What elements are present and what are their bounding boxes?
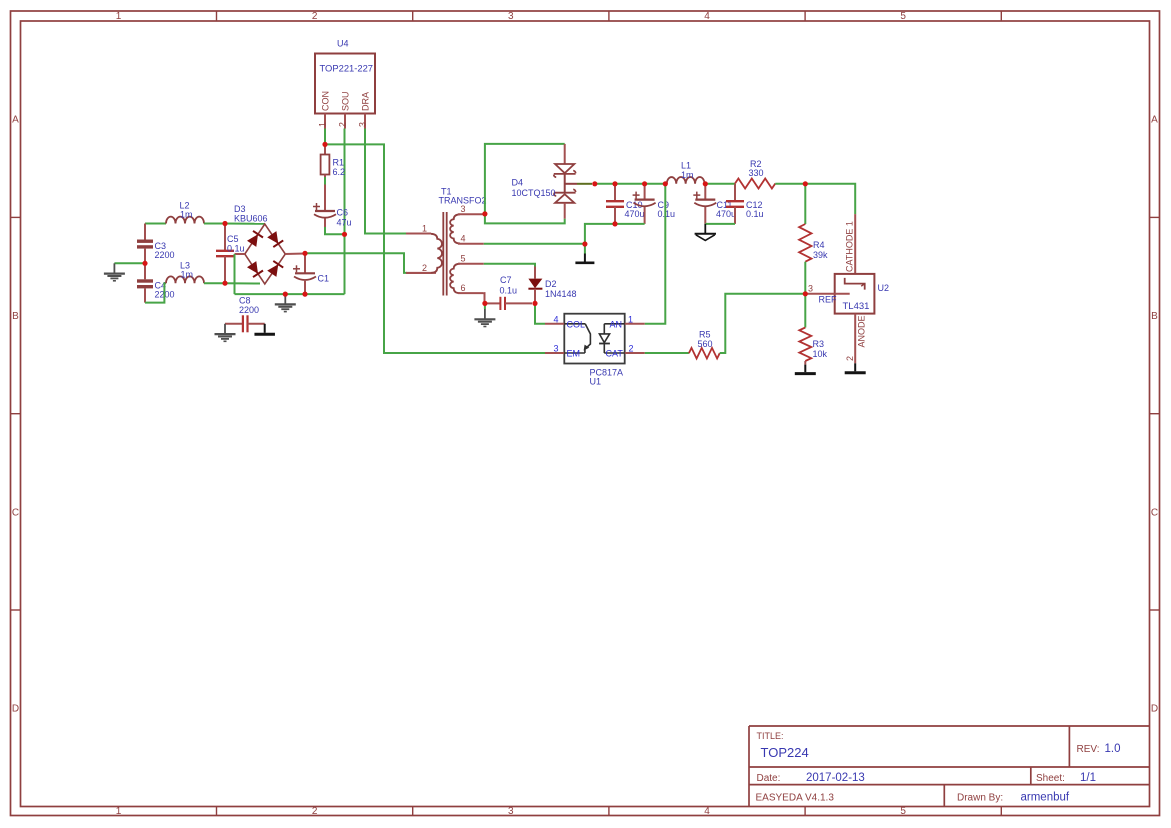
svg-text:3: 3 [808, 284, 813, 294]
svg-text:4: 4 [554, 315, 559, 325]
junction D4 output [592, 181, 597, 186]
wire minus rail [235, 293, 345, 295]
capacitor C12 [734, 184, 736, 200]
diode D4 10CTQ150 [555, 164, 574, 173]
junction REF [803, 291, 808, 296]
svg-text:1: 1 [318, 122, 328, 127]
pin 1 U4 [324, 114, 326, 129]
wire CAT to R5 [645, 352, 689, 354]
capacitor C9 [644, 184, 646, 200]
wire R4 bottom [804, 262, 806, 294]
resistor R2 [735, 179, 775, 189]
ground U2 anode [854, 363, 856, 371]
wire plus rail to T1 pin2 [305, 253, 407, 273]
junction L2/C5/D3 [222, 221, 227, 226]
svg-text:6: 6 [461, 283, 466, 293]
op-amp U2 TL431 body [835, 274, 875, 314]
wire R5 to REF [720, 294, 806, 353]
resistor R1 [324, 146, 326, 155]
svg-text:B: B [12, 311, 19, 322]
svg-text:TOP221-227: TOP221-227 [320, 63, 374, 74]
resistor R5 [689, 348, 720, 359]
svg-text:C5: C5 [227, 234, 239, 244]
pin 1 U1 AN [625, 323, 645, 325]
svg-text:Sheet:: Sheet: [1036, 773, 1065, 784]
junction C10 bottom [612, 221, 617, 226]
svg-text:U1: U1 [590, 377, 602, 387]
svg-text:A: A [1151, 115, 1158, 126]
svg-text:3: 3 [508, 806, 514, 817]
diode D2 1N4148 [534, 267, 536, 279]
junction pin4/gnd [582, 241, 587, 246]
svg-text:D: D [1151, 704, 1158, 715]
svg-text:COL: COL [567, 319, 586, 329]
junction C3/C4/gnd [142, 261, 147, 266]
wire AC top left [145, 223, 166, 225]
svg-text:2: 2 [629, 344, 634, 354]
junction L3/C5 [222, 281, 227, 286]
wire SOU pin2 down [344, 129, 346, 295]
op-amp U4 TOP221-227 body [315, 54, 375, 114]
transformer T1 [442, 212, 444, 296]
junction D3 plus/C1 [302, 251, 307, 256]
svg-text:1: 1 [116, 806, 122, 817]
svg-text:EM: EM [567, 349, 581, 359]
svg-text:1/1: 1/1 [1080, 772, 1096, 784]
svg-text:Date:: Date: [757, 773, 781, 784]
svg-text:D2: D2 [545, 279, 557, 289]
capacitor C6 [324, 185, 326, 211]
svg-text:2: 2 [845, 356, 855, 361]
svg-text:0.1u: 0.1u [227, 244, 245, 254]
wire cathode [854, 214, 856, 274]
ground C7 [484, 303, 486, 309]
svg-text:SOU: SOU [341, 91, 351, 111]
inductor L2 [166, 217, 204, 224]
svg-text:2017-02-13: 2017-02-13 [806, 772, 865, 784]
svg-text:4: 4 [704, 11, 710, 22]
pin 3 U4 [364, 114, 366, 129]
svg-text:10CTQ150: 10CTQ150 [512, 188, 556, 198]
junction L1 left [663, 181, 668, 186]
svg-text:1N4148: 1N4148 [545, 289, 577, 299]
svg-text:C6: C6 [337, 208, 349, 218]
wire CON pin1 down [324, 129, 326, 147]
phototransistor U1 [564, 323, 585, 325]
junction C9 top [642, 181, 647, 186]
pin 4 U1 COL [545, 323, 564, 325]
wire D4 anode lead [564, 144, 566, 164]
svg-text:R1: R1 [333, 158, 345, 168]
capacitor C10 [614, 184, 616, 200]
svg-text:3: 3 [508, 11, 514, 22]
svg-text:1.0: 1.0 [1105, 743, 1121, 755]
svg-text:L1: L1 [681, 161, 691, 171]
svg-text:R4: R4 [813, 240, 825, 250]
wire L2 to node [204, 223, 225, 225]
inductor L1 [667, 177, 705, 184]
svg-text:1: 1 [116, 11, 122, 22]
wire R2 to cathode corner [775, 184, 855, 214]
svg-text:armenbuf: armenbuf [1021, 792, 1070, 804]
wire DRA pin3 to T1 pin1 [365, 129, 406, 234]
wire L3 to node [204, 282, 225, 284]
capacitor C3 [144, 224, 146, 240]
wire C6 to SOU net [325, 227, 345, 234]
svg-text:5: 5 [900, 11, 906, 22]
resistor R3 [799, 328, 811, 362]
wire C11 C12 bottom [705, 223, 735, 225]
wire C4 to L3 [145, 283, 166, 302]
junction C7 left [482, 301, 487, 306]
ground output earth [704, 224, 706, 234]
svg-text:0.1u: 0.1u [500, 286, 518, 296]
svg-text:C: C [12, 507, 19, 518]
wire D2 to COL [535, 303, 545, 323]
svg-text:5: 5 [900, 806, 906, 817]
svg-text:U4: U4 [337, 39, 349, 49]
wire R4 top [804, 184, 806, 224]
wire CON to EM (feedback) [325, 144, 545, 353]
svg-text:C8: C8 [239, 296, 251, 306]
svg-text:39k: 39k [813, 250, 828, 260]
svg-text:2200: 2200 [155, 250, 175, 260]
wire R3 top [804, 294, 806, 328]
svg-text:CON: CON [321, 91, 331, 111]
ground secondary [584, 254, 586, 262]
capacitor C1 [304, 254, 306, 274]
resistor R4 [799, 224, 811, 262]
wire node to D3 top [225, 223, 265, 225]
svg-text:4: 4 [704, 806, 710, 817]
svg-text:C1: C1 [318, 274, 330, 284]
svg-text:1: 1 [422, 224, 427, 234]
title block [749, 725, 1150, 727]
svg-text:6.2: 6.2 [333, 167, 346, 177]
wire output rail [595, 183, 667, 185]
svg-text:3: 3 [461, 204, 466, 214]
wire caps bottom rail [585, 224, 645, 244]
junction T1 pin3 [482, 211, 487, 216]
svg-text:DRA: DRA [361, 92, 371, 111]
wire R1 to C6 [324, 177, 326, 185]
wire D3 minus down [234, 254, 236, 294]
wire pin6 corner [483, 293, 486, 303]
svg-text:47u: 47u [337, 218, 352, 228]
svg-text:REV:: REV: [1077, 744, 1100, 755]
svg-text:5: 5 [461, 254, 466, 264]
wire gnd stub [584, 244, 586, 254]
svg-text:TL431: TL431 [843, 301, 870, 312]
svg-text:KBU606: KBU606 [234, 214, 268, 224]
svg-text:10k: 10k [813, 349, 828, 359]
wire pin5 to D2 [484, 264, 535, 267]
svg-text:A: A [12, 115, 19, 126]
junction C10 top [612, 181, 617, 186]
svg-text:C7: C7 [500, 275, 512, 285]
capacitor C7 [485, 302, 501, 304]
junction CON node [322, 142, 327, 147]
svg-text:2: 2 [338, 122, 348, 127]
pin 2 U1 CAT [625, 352, 645, 354]
svg-text:1: 1 [628, 315, 633, 325]
pin 3 U1 EM [545, 352, 564, 354]
capacitor C11 [704, 184, 706, 200]
svg-text:2: 2 [422, 263, 427, 273]
svg-text:ANODE: ANODE [857, 315, 867, 347]
junction gnd tap [283, 292, 288, 297]
wire D4 bottom loop [485, 214, 565, 223]
svg-text:3: 3 [358, 122, 368, 127]
svg-text:560: 560 [698, 339, 713, 349]
svg-text:D3: D3 [234, 204, 246, 214]
svg-text:B: B [1151, 311, 1158, 322]
capacitor C8 [225, 323, 243, 325]
ground C8 right [264, 324, 266, 333]
svg-text:0.1u: 0.1u [746, 209, 764, 219]
ground C8 left [224, 324, 226, 334]
pin 3 U2 REF [805, 293, 849, 295]
wire D4 output overlap [577, 183, 592, 185]
svg-text:REF: REF [819, 295, 838, 305]
svg-text:1m: 1m [181, 270, 194, 280]
svg-text:EASYEDA V4.1.3: EASYEDA V4.1.3 [756, 793, 835, 804]
pin 2 U2 anode [854, 314, 856, 364]
svg-text:R5: R5 [699, 330, 711, 340]
svg-text:1m: 1m [681, 170, 694, 180]
svg-text:1m: 1m [180, 210, 193, 220]
ground R3 [804, 361, 806, 365]
capacitor C4 [144, 263, 146, 279]
svg-text:470u: 470u [625, 209, 645, 219]
svg-text:3: 3 [554, 344, 559, 354]
svg-text:Drawn By:: Drawn By: [957, 793, 1003, 804]
LED U1 [604, 323, 624, 325]
wire node to D3 bottom [225, 282, 260, 284]
svg-text:R3: R3 [813, 339, 825, 349]
svg-text:4: 4 [461, 234, 466, 244]
svg-text:AN: AN [610, 319, 623, 329]
svg-text:2: 2 [312, 11, 318, 22]
bridge rectifier D3 [245, 224, 285, 284]
svg-text:2: 2 [312, 806, 318, 817]
svg-text:CATHODE 1: CATHODE 1 [845, 221, 855, 272]
wire to left ground [114, 262, 145, 264]
junction output sense [803, 181, 808, 186]
svg-text:470u: 470u [716, 209, 736, 219]
wire AN to output rail [645, 184, 666, 324]
junction L1 right [703, 181, 708, 186]
pin 2 T1 stub [406, 272, 436, 274]
capacitor C5 [224, 224, 226, 251]
optocoupler U1 body [564, 314, 624, 364]
wire pin3 loop up [485, 144, 565, 214]
svg-text:CAT: CAT [606, 349, 624, 359]
svg-text:U2: U2 [878, 283, 890, 293]
svg-text:TOP224: TOP224 [761, 745, 809, 760]
pin 2 U4 [344, 114, 346, 129]
svg-text:TITLE:: TITLE: [757, 731, 784, 741]
svg-text:2200: 2200 [239, 305, 259, 315]
junction D2/C7 [532, 301, 537, 306]
ground left input [113, 263, 115, 273]
junction C6/SOU [342, 232, 347, 237]
wire L1 to R2 [705, 183, 735, 185]
ground minus rail [284, 294, 286, 304]
inductor L3 [166, 276, 204, 283]
junction C1 bottom [302, 292, 307, 297]
svg-text:330: 330 [749, 168, 764, 178]
pin 4 T1 wire [484, 243, 585, 245]
svg-text:D: D [12, 704, 19, 715]
svg-text:D4: D4 [512, 178, 524, 188]
svg-text:C: C [1151, 507, 1158, 518]
